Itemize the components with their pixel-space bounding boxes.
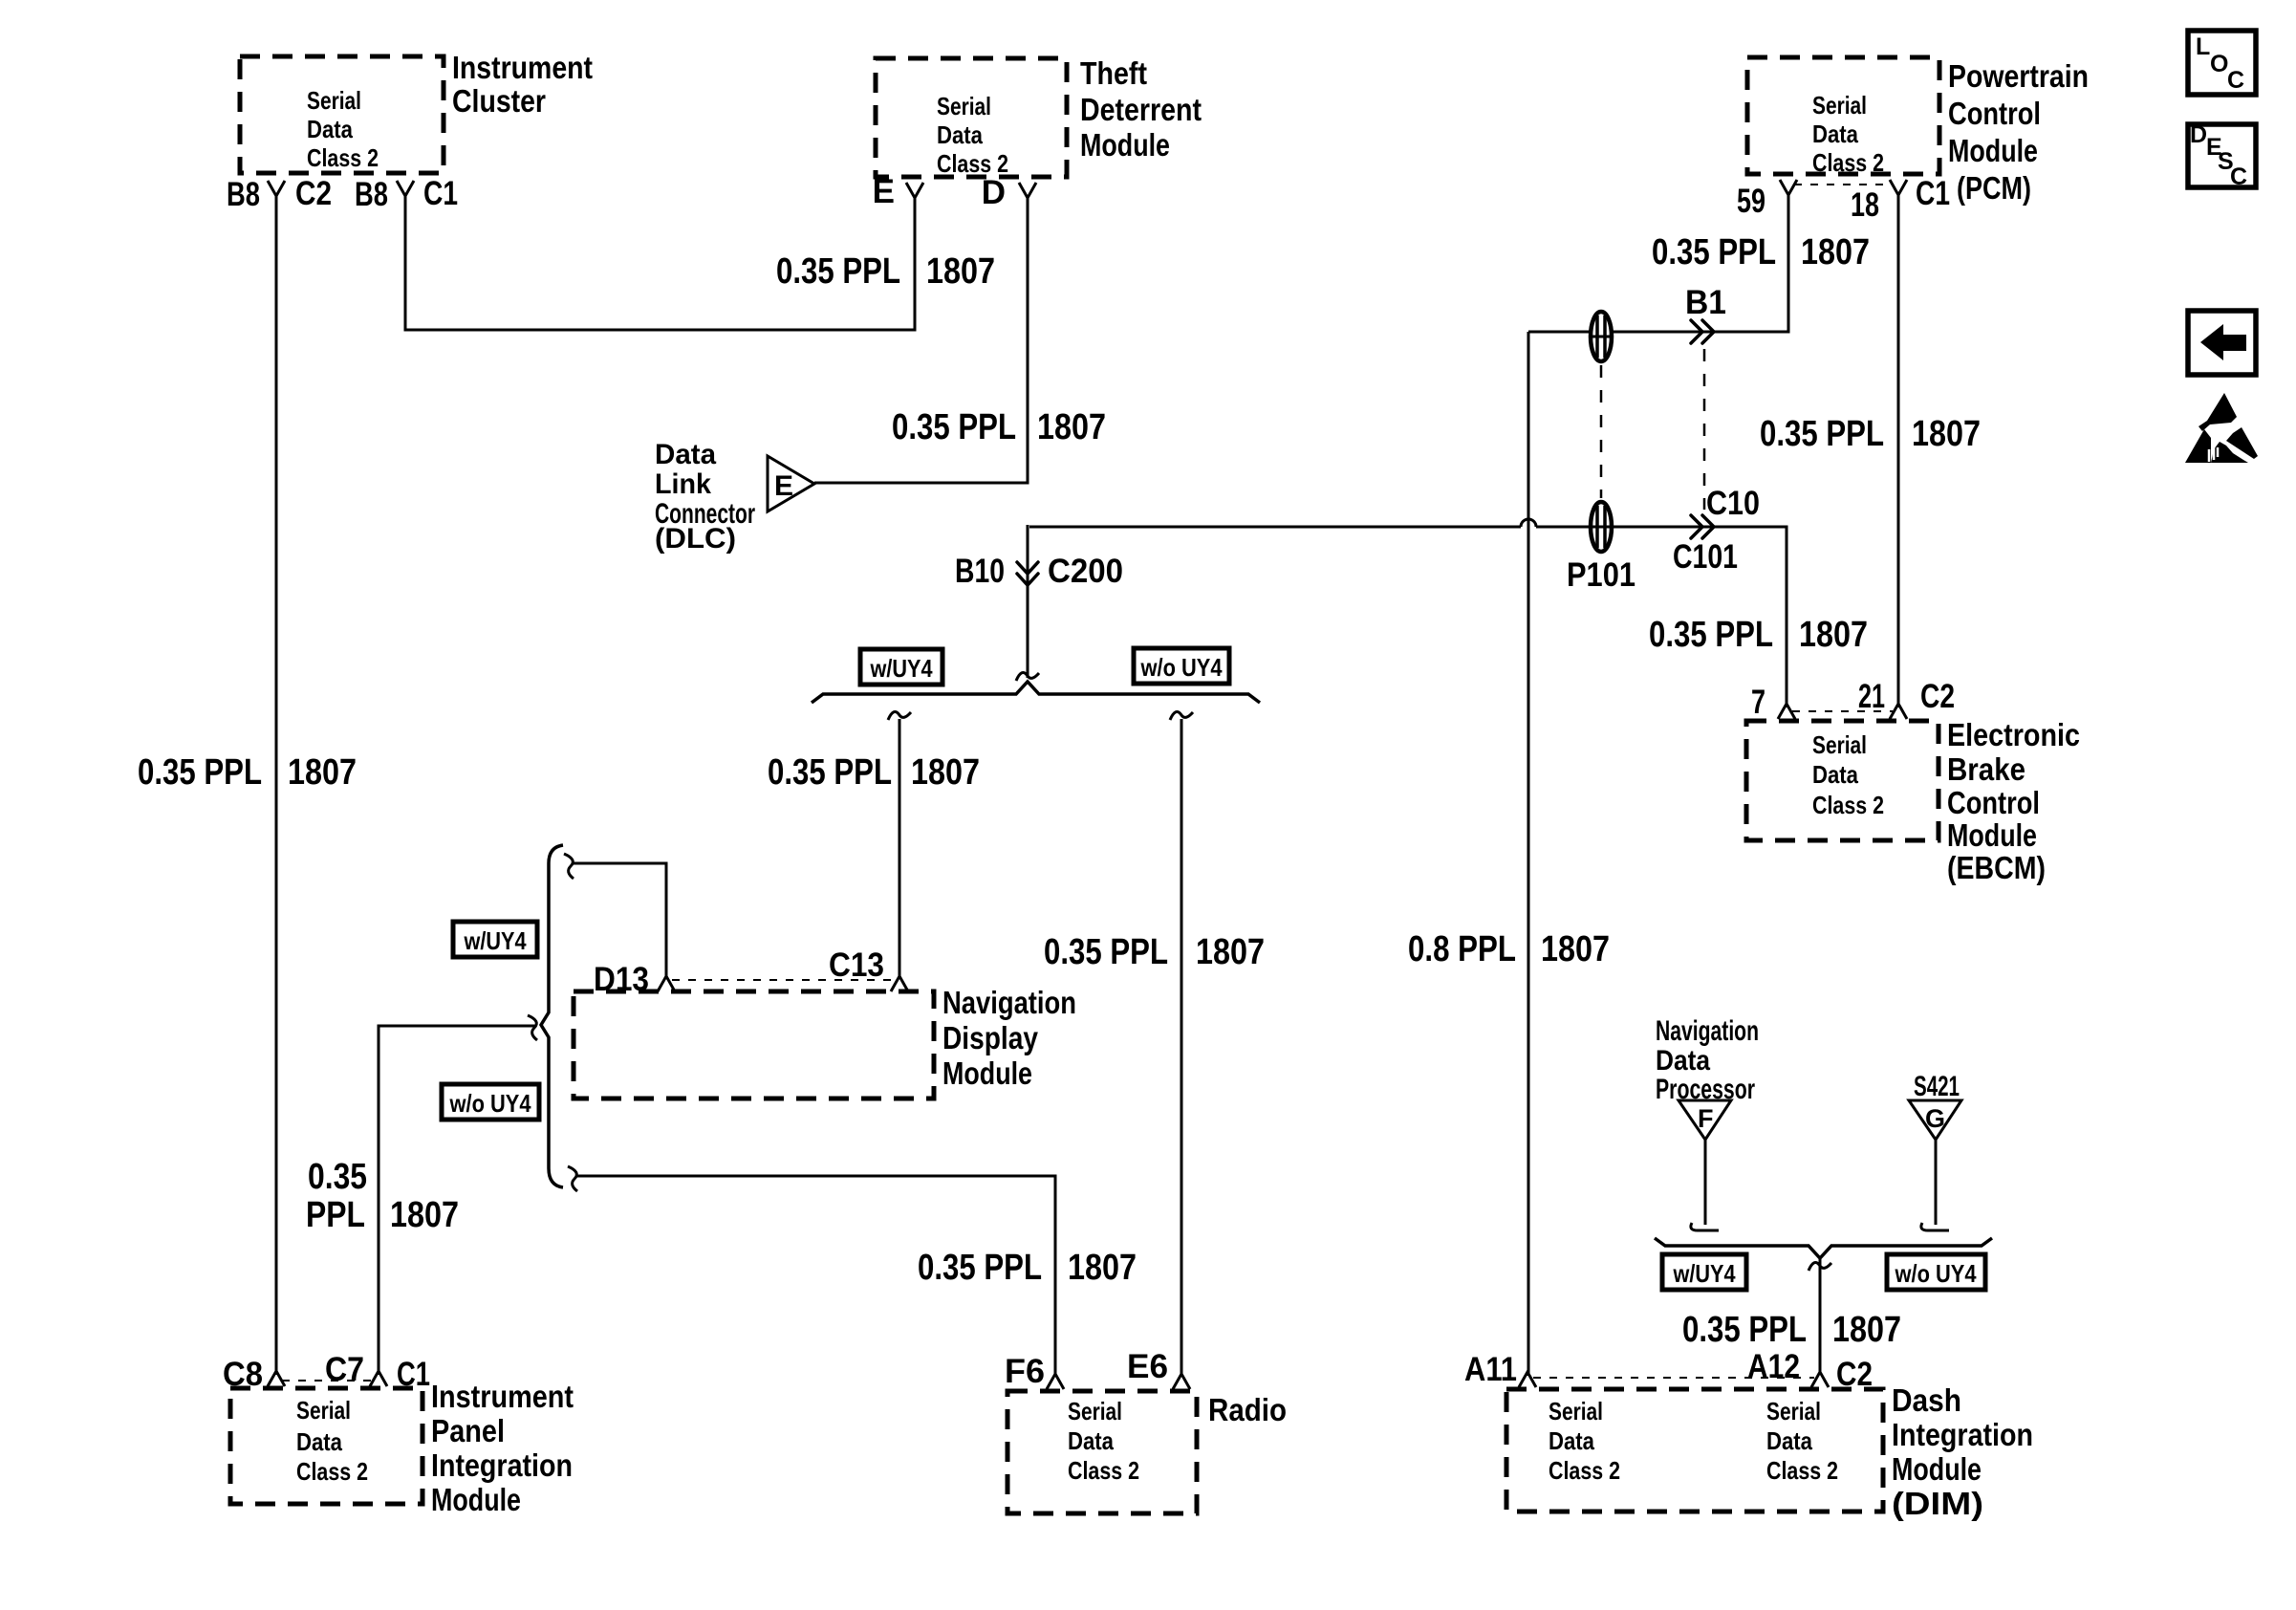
svg-text:C: C xyxy=(2230,163,2247,190)
svg-text:S421: S421 xyxy=(1914,1071,1960,1102)
label 0.35 PPL 1807 on E6 wire xyxy=(1044,932,1265,972)
pin C8 of IPIM xyxy=(223,1356,285,1393)
label 0.35 PPL 1807 on left long wire xyxy=(138,752,357,793)
icon DESC box xyxy=(2188,121,2256,190)
svg-text:Data: Data xyxy=(1549,1426,1594,1455)
option label box w/o UY4 (left) xyxy=(442,1084,539,1120)
wire PCM pin 18 to EBCM pin 21 (0.35 PPL 1807) xyxy=(1897,195,1900,707)
svg-text:0.8 PPL: 0.8 PPL xyxy=(1408,929,1516,969)
svg-text:Class 2: Class 2 xyxy=(1812,791,1884,819)
splice S421 terminal G triangle xyxy=(1909,1071,1961,1140)
module Powertrain Control Module PCM (dashed box, Serial Data Class 2) xyxy=(1747,57,2089,206)
label 0.8 PPL 1807 xyxy=(1408,929,1610,969)
svg-text:Panel: Panel xyxy=(431,1413,505,1448)
svg-text:(DIM): (DIM) xyxy=(1892,1486,1983,1521)
svg-text:Radio: Radio xyxy=(1208,1392,1287,1427)
svg-text:w/o UY4: w/o UY4 xyxy=(1140,653,1223,682)
module Electronic Brake Control Module EBCM (dashed box, Serial Data Class 2) xyxy=(1746,717,2080,885)
squiggle on w/o UY4 branch wire xyxy=(1170,711,1193,720)
module Theft Deterrent Module (dashed box, Serial Data Class 2) xyxy=(876,55,1202,178)
pin F6 of Radio xyxy=(1005,1353,1064,1390)
svg-text:1807: 1807 xyxy=(1832,1310,1901,1350)
svg-text:Data: Data xyxy=(1068,1426,1114,1455)
module Dash Integration Module DIM (dashed box, two Serial Data Class 2) xyxy=(1506,1382,2033,1521)
svg-text:A12: A12 xyxy=(1747,1348,1800,1385)
pin B8 connector C2 of Instrument Cluster xyxy=(227,175,332,213)
svg-text:Integration: Integration xyxy=(1892,1417,2033,1452)
pin A12 connector C2 of DIM xyxy=(1747,1348,1873,1393)
wire G triangle stem xyxy=(1935,1140,1938,1225)
svg-text:Module: Module xyxy=(431,1482,521,1517)
svg-text:1807: 1807 xyxy=(1068,1248,1137,1288)
svg-text:Dash: Dash xyxy=(1892,1382,1961,1418)
svg-text:Theft: Theft xyxy=(1080,55,1147,91)
svg-text:0.35: 0.35 xyxy=(308,1157,367,1197)
svg-text:C101: C101 xyxy=(1673,538,1738,576)
svg-text:Serial: Serial xyxy=(1068,1397,1122,1425)
svg-text:B8: B8 xyxy=(355,176,388,213)
pin 18 connector C1 of PCM xyxy=(1851,175,1950,224)
svg-text:1807: 1807 xyxy=(1541,929,1610,969)
svg-text:Data: Data xyxy=(655,439,716,470)
squiggle on bracket bottom subwire xyxy=(568,1166,577,1191)
svg-text:Display: Display xyxy=(942,1020,1039,1055)
svg-text:Data: Data xyxy=(1812,120,1858,148)
svg-text:C1: C1 xyxy=(423,175,458,212)
svg-text:Data: Data xyxy=(307,115,353,143)
svg-text:O: O xyxy=(2210,51,2228,77)
svg-text:Module: Module xyxy=(1080,127,1170,163)
svg-text:18: 18 xyxy=(1851,186,1879,224)
pin 7 of EBCM xyxy=(1751,684,1795,721)
svg-text:C2: C2 xyxy=(295,175,332,212)
svg-text:7: 7 xyxy=(1751,684,1765,721)
svg-text:Navigation: Navigation xyxy=(942,985,1076,1020)
svg-text:C10: C10 xyxy=(1706,485,1760,522)
svg-text:Serial: Serial xyxy=(1549,1397,1603,1425)
svg-text:Class 2: Class 2 xyxy=(296,1457,368,1486)
stacked label 0.35 PPL 1807 on C7 wire xyxy=(306,1157,459,1235)
svg-text:Serial: Serial xyxy=(937,92,991,120)
svg-text:Class 2: Class 2 xyxy=(1812,148,1884,177)
svg-text:0.35 PPL: 0.35 PPL xyxy=(1044,932,1168,972)
svg-text:Module: Module xyxy=(942,1055,1032,1091)
svg-text:Serial: Serial xyxy=(1766,1397,1821,1425)
wire hop over vertical wire xyxy=(1521,519,1536,527)
pin E6 of Radio xyxy=(1127,1348,1190,1389)
svg-text:1807: 1807 xyxy=(1801,232,1870,272)
svg-text:w/UY4: w/UY4 xyxy=(464,926,527,955)
pin C7 connector C1 of IPIM xyxy=(325,1351,430,1393)
svg-text:E6: E6 xyxy=(1127,1348,1168,1385)
svg-text:(EBCM): (EBCM) xyxy=(1947,850,2046,885)
svg-text:0.35 PPL: 0.35 PPL xyxy=(1652,232,1776,272)
wire bracket bottom branch to Radio pin F6 (0.35 PPL 1807) xyxy=(577,1176,1055,1376)
pin E of Theft Deterrent Module xyxy=(873,173,923,210)
svg-text:1807: 1807 xyxy=(926,251,995,292)
svg-text:21: 21 xyxy=(1858,678,1885,715)
svg-text:59: 59 xyxy=(1737,183,1765,220)
svg-text:Instrument: Instrument xyxy=(431,1379,574,1414)
svg-text:Data: Data xyxy=(937,120,983,149)
svg-text:C1: C1 xyxy=(1916,175,1950,212)
in-line connector chevron C10 / C101 xyxy=(1673,485,1760,576)
svg-text:1807: 1807 xyxy=(288,752,357,793)
dashed pin link line DIM A11-A12 xyxy=(1533,1377,1814,1379)
Data Link Connector DLC terminal E triangle xyxy=(655,439,814,555)
module Radio (dashed box, Serial Data Class 2) xyxy=(1007,1391,1287,1513)
label 0.35 PPL 1807 on C13 wire xyxy=(768,752,980,793)
wire B1 junction to PCM pin 59 (0.35 PPL 1807) xyxy=(1528,195,1788,332)
option label box w/UY4 (bottom) xyxy=(1662,1254,1746,1290)
pin C13 of Navigation Display Module xyxy=(829,946,908,991)
svg-text:B8: B8 xyxy=(227,176,260,213)
pin D13 of Navigation Display Module xyxy=(594,961,675,998)
foot of F stem xyxy=(1691,1223,1719,1230)
pin 59 of PCM xyxy=(1737,180,1797,220)
icon back arrow box xyxy=(2188,311,2256,375)
svg-text:0.35 PPL: 0.35 PPL xyxy=(138,752,262,793)
svg-text:Data: Data xyxy=(1766,1426,1812,1455)
grommet P101 on C10 wire xyxy=(1567,502,1635,594)
icon ESD sensitive device symbol xyxy=(2185,393,2258,463)
foot of G stem xyxy=(1921,1223,1949,1230)
dashed link line between chevrons B1 C10 xyxy=(1703,349,1706,510)
pin A11 of DIM xyxy=(1464,1351,1536,1388)
wire IPIM pin C7 up to choice bracket (0.35 PPL 1807) xyxy=(379,1026,535,1375)
UY4 option bus bracket (bottom, DIM) xyxy=(1655,1238,1992,1258)
svg-text:Serial: Serial xyxy=(307,86,361,115)
svg-text:(DLC): (DLC) xyxy=(655,523,736,555)
label 0.35 PPL 1807 on pin 18 - pin 21 wire xyxy=(1760,414,1981,454)
svg-text:1807: 1807 xyxy=(390,1195,459,1235)
squiggle on bracket top subwire xyxy=(564,854,574,879)
svg-text:L: L xyxy=(2196,33,2210,60)
svg-text:Class 2: Class 2 xyxy=(1549,1456,1620,1485)
pin D of Theft Deterrent Module xyxy=(982,174,1036,211)
choice bracket for Navigation Display Module wiring options xyxy=(541,845,563,1187)
svg-text:B1: B1 xyxy=(1685,284,1726,321)
option label box w/UY4 (left) xyxy=(453,922,537,957)
svg-text:0.35 PPL: 0.35 PPL xyxy=(768,752,892,793)
svg-text:w/UY4: w/UY4 xyxy=(870,654,933,683)
UY4 option bus bracket (top) xyxy=(812,682,1260,703)
svg-text:Control: Control xyxy=(1947,785,2040,820)
wire pin D to DLC terminal E (0.35 PPL 1807) xyxy=(814,196,1028,483)
squiggle on w/UY4 branch wire xyxy=(888,711,911,720)
svg-text:F6: F6 xyxy=(1005,1353,1045,1390)
svg-text:0.35 PPL: 0.35 PPL xyxy=(918,1248,1042,1288)
svg-text:1807: 1807 xyxy=(1799,615,1868,655)
svg-text:0.35 PPL: 0.35 PPL xyxy=(1682,1310,1807,1350)
svg-text:Electronic: Electronic xyxy=(1947,717,2080,752)
module Instrument Cluster (dashed box, Serial Data Class 2) xyxy=(240,50,593,173)
option label box w/o UY4 (top) xyxy=(1134,648,1229,684)
svg-text:Serial: Serial xyxy=(1812,730,1867,759)
svg-text:Module: Module xyxy=(1892,1451,1982,1487)
svg-text:Integration: Integration xyxy=(431,1447,573,1483)
dashed pin link line IPIM C8-C7 xyxy=(282,1380,373,1382)
svg-text:C: C xyxy=(2227,67,2244,94)
label 0.35 PPL 1807 on D-DLC wire xyxy=(892,407,1106,447)
svg-text:1807: 1807 xyxy=(1196,932,1265,972)
svg-text:D: D xyxy=(2190,121,2207,148)
svg-text:Deterrent: Deterrent xyxy=(1080,92,1202,127)
svg-text:Data: Data xyxy=(1812,760,1858,789)
label 0.35 PPL 1807 on A12 wire xyxy=(1682,1310,1901,1350)
svg-text:Link: Link xyxy=(655,468,711,500)
wire bottom bracket to DIM pin A12 (0.35 PPL 1807) xyxy=(1819,1259,1822,1374)
option label box w/UY4 (top) xyxy=(860,649,942,685)
svg-text:Class 2: Class 2 xyxy=(307,143,379,172)
svg-text:D: D xyxy=(982,174,1006,211)
svg-text:Data: Data xyxy=(1656,1045,1710,1077)
wire w/o UY4 branch to Radio pin E6 (0.35 PPL 1807) xyxy=(1180,719,1183,1376)
svg-text:w/o UY4: w/o UY4 xyxy=(1895,1259,1977,1288)
wire F triangle stem xyxy=(1704,1140,1707,1225)
pin 21 connector C2 of EBCM xyxy=(1858,678,1955,719)
svg-text:Class 2: Class 2 xyxy=(1766,1456,1838,1485)
label 0.35 PPL 1807 on C10 to EBCM pin 7 wire xyxy=(1649,615,1868,655)
label 0.35 PPL 1807 on C1-E wire xyxy=(776,251,995,292)
svg-text:(PCM): (PCM) xyxy=(1957,170,2031,206)
svg-text:C2: C2 xyxy=(1920,678,1955,715)
wire 0.8 PPL 1807 from B1 junction down to DIM pin A11 xyxy=(1527,332,1530,1376)
dashed pin link line EBCM 7-21 xyxy=(1792,710,1893,712)
svg-text:F: F xyxy=(1698,1104,1714,1133)
svg-text:C7: C7 xyxy=(325,1351,364,1388)
squiggle at end of C7 wire xyxy=(528,1015,537,1040)
svg-text:PPL: PPL xyxy=(306,1195,365,1235)
svg-text:B10: B10 xyxy=(955,553,1005,590)
svg-text:w/UY4: w/UY4 xyxy=(1673,1259,1736,1288)
svg-text:Module: Module xyxy=(1947,817,2037,853)
wire C10 net: B10 branch to EBCM pin 7 with hop over 0.8 PPL wire xyxy=(1028,525,1787,707)
svg-text:Instrument: Instrument xyxy=(452,50,593,85)
svg-text:Data: Data xyxy=(296,1427,342,1456)
label 0.35 PPL 1807 on F6 wire xyxy=(918,1248,1137,1288)
wire w/UY4 branch to Navigation Display Module pin C13 (0.35 PPL 1807) xyxy=(899,719,901,976)
label 0.35 PPL 1807 on pin 59 wire xyxy=(1652,232,1870,272)
Navigation Data Processor terminal F triangle xyxy=(1656,1015,1759,1140)
pin B8 connector C1 of Instrument Cluster xyxy=(355,175,458,213)
grommet P101 on B1 wire xyxy=(1591,312,1612,361)
svg-text:Control: Control xyxy=(1948,96,2041,131)
svg-text:1807: 1807 xyxy=(911,752,980,793)
svg-text:0.35 PPL: 0.35 PPL xyxy=(1760,414,1884,454)
svg-text:Cluster: Cluster xyxy=(452,83,546,119)
svg-text:G: G xyxy=(1925,1104,1945,1133)
module Navigation Display Module (dashed box) xyxy=(574,985,1076,1099)
dashed pin link line D13-C13 xyxy=(672,979,894,981)
dashed pin link line PCM 59-18 xyxy=(1794,184,1893,185)
svg-text:Serial: Serial xyxy=(1812,91,1867,120)
svg-text:0.35 PPL: 0.35 PPL xyxy=(776,251,900,292)
squiggle splice below bottom bracket xyxy=(1809,1262,1831,1271)
svg-text:Class 2: Class 2 xyxy=(1068,1456,1139,1485)
svg-text:E: E xyxy=(774,470,793,502)
svg-text:C2: C2 xyxy=(1836,1356,1873,1393)
svg-text:Module: Module xyxy=(1948,133,2038,168)
icon LOC box xyxy=(2188,31,2256,95)
svg-text:Powertrain: Powertrain xyxy=(1948,58,2089,94)
svg-text:C200: C200 xyxy=(1048,553,1123,590)
svg-text:0.35 PPL: 0.35 PPL xyxy=(1649,615,1773,655)
svg-text:E: E xyxy=(873,173,895,210)
svg-text:C13: C13 xyxy=(829,946,884,984)
svg-text:A11: A11 xyxy=(1464,1351,1517,1388)
wire B8 C1 to pin E Theft Deterrent (0.35 PPL 1807) xyxy=(405,194,915,330)
in-line connector chevron B10 / C200 on vertical wire xyxy=(955,553,1123,590)
svg-text:1807: 1807 xyxy=(1037,407,1106,447)
module Instrument Panel Integration Module IPIM (dashed box, Serial Data Class 2) xyxy=(230,1379,574,1517)
wire bracket top branch to pin D13 xyxy=(574,863,666,976)
svg-text:Navigation: Navigation xyxy=(1656,1015,1759,1047)
svg-text:1807: 1807 xyxy=(1912,414,1981,454)
svg-text:w/o UY4: w/o UY4 xyxy=(449,1089,531,1118)
svg-text:C1: C1 xyxy=(397,1356,430,1393)
squiggle splice above UY4 bus bracket xyxy=(1016,672,1039,681)
svg-text:Brake: Brake xyxy=(1947,751,2025,787)
option label box w/o UY4 (bottom) xyxy=(1887,1254,1985,1290)
svg-text:C8: C8 xyxy=(223,1356,263,1393)
svg-text:P101: P101 xyxy=(1567,556,1635,594)
svg-text:Serial: Serial xyxy=(296,1396,351,1425)
svg-text:0.35 PPL: 0.35 PPL xyxy=(892,407,1016,447)
wire B8 C2 to C8 IPIM (0.35 PPL 1807) xyxy=(275,194,278,1375)
in-line connector chevron B1 xyxy=(1685,284,1726,343)
dashed link line between grommets P101 xyxy=(1600,365,1603,498)
